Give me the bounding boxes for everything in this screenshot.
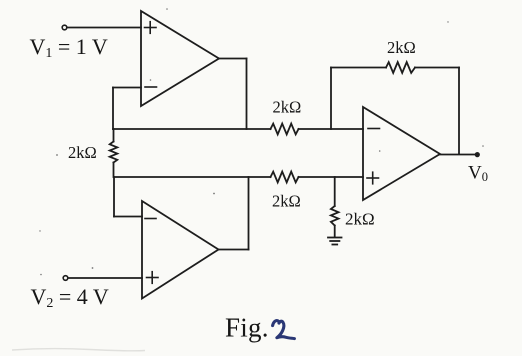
svg-text:Fig.: Fig. xyxy=(225,313,269,343)
svg-text:2kΩ: 2kΩ xyxy=(345,210,375,229)
svg-text:2kΩ: 2kΩ xyxy=(387,38,416,57)
svg-text:V2 = 4 V: V2 = 4 V xyxy=(31,284,109,311)
svg-text:2kΩ: 2kΩ xyxy=(273,98,302,117)
svg-text:2kΩ: 2kΩ xyxy=(272,192,301,211)
svg-text:2kΩ: 2kΩ xyxy=(68,143,97,162)
svg-text:V1 = 1 V: V1 = 1 V xyxy=(30,34,108,61)
